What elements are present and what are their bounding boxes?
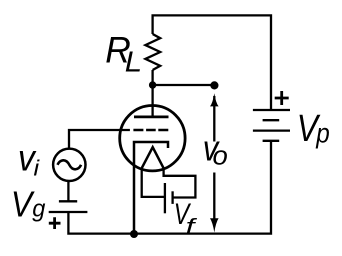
svg-text:o: o [213,140,228,171]
svg-text:g: g [32,196,45,222]
svg-text:L: L [125,47,142,78]
svg-text:i: i [34,156,40,180]
svg-text:p: p [315,117,329,149]
